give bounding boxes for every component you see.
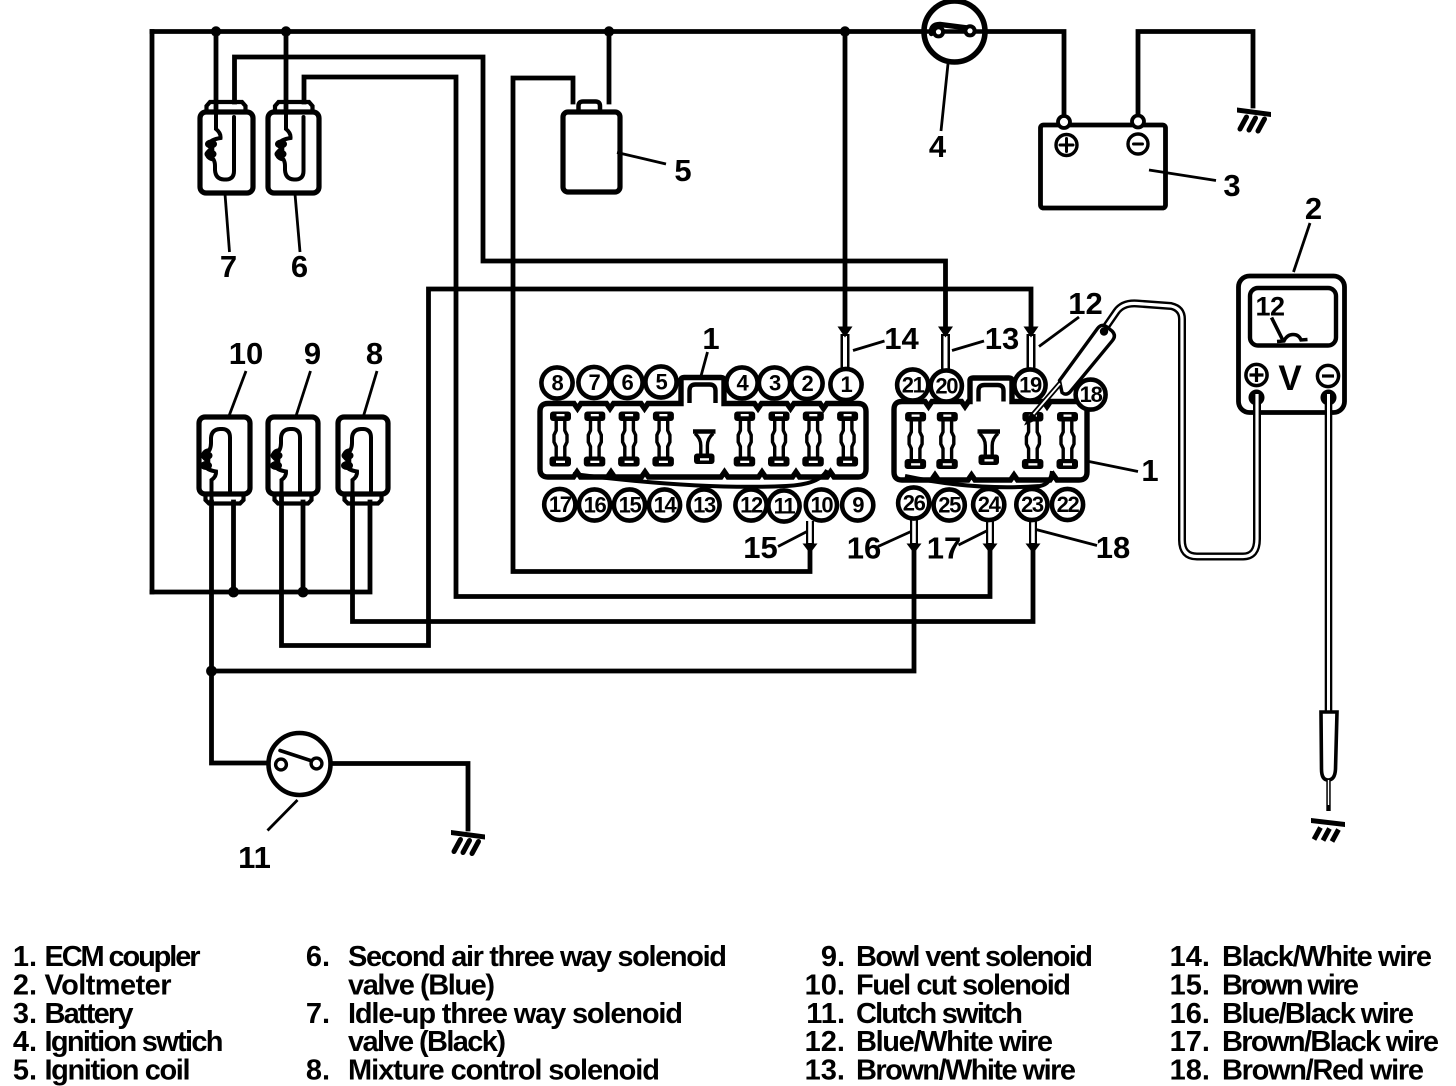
node 18 <box>1076 380 1106 410</box>
svg-text:Brown/Black wire: Brown/Black wire <box>1222 1026 1439 1058</box>
junction bus/solenoid7 <box>211 26 221 36</box>
ECM pin number circles left coupler top row <box>541 366 861 400</box>
wire 13 Brown/White: solenoid 7 to ECM pin 20 <box>235 57 946 330</box>
svg-text:8.: 8. <box>306 1055 330 1086</box>
svg-text:6.: 6. <box>306 941 330 973</box>
svg-text:Voltmeter: Voltmeter <box>45 969 172 1001</box>
leader label 16 <box>878 532 911 547</box>
leader label 5 <box>617 153 666 165</box>
node 25 <box>934 489 965 520</box>
pin slot 21 <box>905 412 927 469</box>
svg-text:4.: 4. <box>13 1026 37 1058</box>
svg-text:11: 11 <box>774 494 796 519</box>
svg-text:7: 7 <box>220 249 237 284</box>
wire ignition coil right pin to bus <box>607 32 612 103</box>
svg-text:9.: 9. <box>821 941 845 973</box>
ECM right latch tab inner <box>979 385 1004 402</box>
node 13 <box>688 489 719 520</box>
pin slot 20 <box>936 412 958 469</box>
leader label 11 <box>268 800 298 831</box>
ECM left under lip <box>573 470 827 487</box>
ground top right (battery negative) <box>1237 108 1271 132</box>
pin slot 3 <box>768 412 790 467</box>
key pin left coupler <box>693 432 716 465</box>
svg-text:12: 12 <box>740 493 763 518</box>
test probe at pin 19 <box>1024 325 1114 425</box>
svg-text:Black/White wire: Black/White wire <box>1222 941 1432 973</box>
node 1 <box>830 369 861 400</box>
pin slot 19 <box>1022 412 1044 469</box>
node 9 <box>842 489 873 520</box>
svg-text:ECM coupler: ECM coupler <box>45 941 201 973</box>
svg-text:10: 10 <box>229 336 263 371</box>
svg-text:Clutch switch: Clutch switch <box>856 998 1023 1030</box>
node 7 <box>578 367 609 398</box>
node 21 <box>897 369 928 400</box>
wire 17 Brown/Black: solenoid 6 to ECM pin 24 <box>304 77 990 597</box>
voltmeter minus terminal <box>1317 365 1338 386</box>
wire 13 terminal at pin 20 <box>941 334 950 369</box>
node 19 <box>1014 369 1045 400</box>
svg-text:15: 15 <box>743 530 777 565</box>
key pin right coupler <box>978 432 1001 466</box>
leader label 8 <box>364 371 378 416</box>
svg-text:22: 22 <box>1057 492 1080 517</box>
clutch switch 11 <box>269 733 331 795</box>
node 24 <box>973 489 1004 520</box>
svg-text:6: 6 <box>622 370 634 395</box>
svg-text:12: 12 <box>1068 286 1102 321</box>
junction wire16/clutch node <box>206 666 217 677</box>
junction bus/solenoid6 <box>281 26 291 36</box>
pin slot 6 <box>618 412 640 467</box>
svg-text:21: 21 <box>902 373 925 398</box>
ECM pin number circles right coupler bottom row <box>898 487 1083 520</box>
pin slot 2 <box>802 412 824 467</box>
svg-text:1.: 1. <box>13 941 37 973</box>
svg-text:3: 3 <box>769 371 781 396</box>
svg-text:Brown/Red wire: Brown/Red wire <box>1222 1055 1424 1086</box>
svg-text:Second air three way solenoid: Second air three way solenoid <box>348 941 727 973</box>
node 20 <box>931 370 962 401</box>
wire solenoid 10 left pin down to clutch switch <box>212 502 269 763</box>
svg-text:Fuel cut solenoid: Fuel cut solenoid <box>856 969 1071 1001</box>
svg-text:valve (Blue): valve (Blue) <box>348 969 495 1001</box>
svg-text:3: 3 <box>1223 168 1240 203</box>
leader label 13 <box>952 341 984 351</box>
pin slot 4 <box>734 412 756 467</box>
svg-text:11: 11 <box>238 840 271 875</box>
node 5 <box>645 366 676 397</box>
node 4 <box>726 367 757 398</box>
wire 12 terminal at pin 19 <box>1027 334 1036 368</box>
svg-text:2: 2 <box>1305 191 1322 226</box>
ignition coil 5 <box>563 102 620 193</box>
wire battery negative to ground <box>1138 32 1253 115</box>
ECM pin number circles left coupler bottom row <box>544 489 873 522</box>
node 23 <box>1016 489 1047 520</box>
wire 15 terminal at pin 10 <box>806 521 814 545</box>
svg-text:26: 26 <box>903 491 926 516</box>
leader label 12 <box>1039 317 1079 347</box>
svg-text:9: 9 <box>852 493 864 518</box>
svg-text:Brown wire: Brown wire <box>1222 969 1359 1001</box>
svg-text:18.: 18. <box>1170 1055 1210 1086</box>
solenoid valve 7 (idle-up three way solenoid valve) <box>200 102 253 193</box>
svg-text:Blue/White wire: Blue/White wire <box>856 1026 1053 1058</box>
svg-text:10: 10 <box>810 493 833 518</box>
wire 18 Brown/Red: solenoid 8 to ECM pin 23 <box>353 494 1034 622</box>
svg-text:23: 23 <box>1021 492 1044 517</box>
pin slot 18 <box>1057 412 1079 469</box>
svg-text:12.: 12. <box>805 1026 845 1058</box>
svg-text:Ignition swtich: Ignition swtich <box>45 1026 224 1058</box>
solenoid 10 (fuel cut solenoid) <box>199 417 250 504</box>
svg-text:11.: 11. <box>806 998 845 1030</box>
leader label 14 <box>853 341 885 351</box>
solenoid 9 (bowl vent solenoid) <box>268 417 318 504</box>
junction power line/solenoid9 right pin <box>298 587 309 598</box>
wire clutch switch to ground <box>331 764 469 830</box>
svg-text:18: 18 <box>1096 530 1130 565</box>
svg-text:24: 24 <box>978 492 1002 517</box>
wire 14 terminal at pin 1 <box>841 334 850 368</box>
leader label 3 <box>1149 170 1216 181</box>
svg-text:7.: 7. <box>306 998 330 1030</box>
ECM left latch tab inner <box>690 385 716 404</box>
svg-text:17.: 17. <box>1170 1026 1210 1058</box>
ECM left connector pin slots <box>550 412 859 467</box>
ground below negative probe <box>1311 818 1345 827</box>
svg-text:15.: 15. <box>1170 969 1210 1001</box>
node 6 <box>611 367 642 398</box>
junction bus/ignition coil <box>604 26 614 36</box>
voltmeter negative lead <box>1311 394 1345 842</box>
svg-text:V: V <box>1278 359 1302 398</box>
svg-text:Mixture control solenoid: Mixture control solenoid <box>348 1055 660 1086</box>
ECM coupler left connector body <box>540 378 866 487</box>
node 26 <box>898 487 929 518</box>
junction power line/solenoid10 right pin <box>228 587 239 598</box>
wire 17 terminal at pin 24 <box>986 521 994 546</box>
ECM coupler right connector body <box>894 378 1087 487</box>
leader label 18 <box>1036 530 1097 546</box>
svg-text:13: 13 <box>693 493 716 518</box>
wire 18 terminal at pin 23 <box>1029 521 1037 546</box>
svg-text:13: 13 <box>985 321 1019 356</box>
ECM right under lip <box>905 471 1052 487</box>
svg-text:5.: 5. <box>13 1055 37 1086</box>
pin slot 1 <box>837 412 859 467</box>
svg-text:17: 17 <box>549 492 572 517</box>
wire solenoid 7 left pin from bus <box>214 32 219 113</box>
pin slot 7 <box>584 412 606 467</box>
svg-text:5: 5 <box>656 370 668 395</box>
solenoid valve 6 (second air three way solenoid valve) <box>268 102 319 193</box>
wire 14 Black/White: bus to ECM pin 1 <box>843 32 848 331</box>
node 10 <box>806 489 837 520</box>
svg-text:18: 18 <box>1080 382 1103 407</box>
node 11 <box>768 490 799 521</box>
svg-text:1: 1 <box>1141 453 1158 488</box>
node 12 <box>735 489 766 520</box>
svg-text:8: 8 <box>552 371 564 396</box>
voltmeter plus terminal <box>1246 364 1267 385</box>
wire solenoid 6 left pin from bus <box>284 32 289 113</box>
pin slot 8 <box>550 412 572 467</box>
wire top bus right of ignition switch to battery + <box>982 32 1064 115</box>
leader label 17 <box>959 531 988 546</box>
wire solenoid 9 right pin to power line <box>301 502 306 592</box>
ECM pin number circles right coupler top row <box>897 369 1105 409</box>
node 17 <box>544 489 575 520</box>
svg-text:19: 19 <box>1019 373 1042 398</box>
wire 16 terminal at pin 26 <box>910 520 918 546</box>
svg-text:valve (Black): valve (Black) <box>348 1026 506 1058</box>
svg-text:25: 25 <box>938 493 961 518</box>
wire solenoid 10 right pin to power line <box>231 502 236 592</box>
svg-text:14: 14 <box>654 493 678 518</box>
svg-text:1: 1 <box>841 372 853 397</box>
svg-text:16.: 16. <box>1170 998 1210 1030</box>
node 16 <box>579 489 610 520</box>
svg-text:3.: 3. <box>13 998 37 1030</box>
svg-text:7: 7 <box>589 370 601 395</box>
node 2 <box>791 368 822 399</box>
svg-text:Battery: Battery <box>45 998 134 1030</box>
svg-text:5: 5 <box>674 153 691 188</box>
svg-text:Idle-up three way solenoid: Idle-up three way solenoid <box>348 998 683 1030</box>
node 15 <box>614 489 645 520</box>
junction bus/wire14 <box>840 26 850 36</box>
battery 3 <box>1041 116 1166 209</box>
node 3 <box>759 367 790 398</box>
wire top +12V bus left segment <box>152 29 926 34</box>
svg-text:15: 15 <box>619 493 642 518</box>
leader label 10 <box>229 371 246 416</box>
svg-text:17: 17 <box>927 531 961 566</box>
svg-text:9: 9 <box>304 336 321 371</box>
wire 16 Blue/Black: ECM pin 26 to clutch switch node <box>212 551 915 671</box>
leader label 1 right <box>1089 462 1138 472</box>
svg-text:Blue/Black wire: Blue/Black wire <box>1222 998 1414 1030</box>
svg-text:1: 1 <box>702 321 719 356</box>
terminal ends and arrows <box>803 327 1041 554</box>
leader label 9 <box>296 371 311 416</box>
LEGEND <box>13 941 1439 1086</box>
svg-text:16: 16 <box>584 493 607 518</box>
leader label 1 left <box>701 352 708 376</box>
solenoid 8 (mixture control solenoid) <box>338 417 388 504</box>
voltmeter needle <box>1272 318 1283 340</box>
ignition switch 4 <box>924 1 985 62</box>
leader label 7 <box>225 194 230 252</box>
svg-text:14: 14 <box>884 321 919 356</box>
svg-text:14.: 14. <box>1170 941 1210 973</box>
voltmeter positive lead cable <box>1103 303 1257 556</box>
voltmeter 2 body <box>1239 276 1345 413</box>
leader label 2 <box>1294 223 1311 272</box>
node 14 <box>649 489 680 520</box>
svg-text:8: 8 <box>366 336 383 371</box>
svg-text:12: 12 <box>1255 292 1284 322</box>
leader label 4 <box>941 59 949 131</box>
wire 15 Brown: ignition coil to ECM pin 10 <box>513 78 810 572</box>
svg-text:Ignition coil: Ignition coil <box>45 1055 191 1086</box>
svg-text:16: 16 <box>847 531 881 566</box>
ECM right connector pin slots <box>905 412 1078 469</box>
svg-text:20: 20 <box>935 374 958 399</box>
wire power line 1 to solenoids 10 9 8 <box>152 502 370 592</box>
node 22 <box>1052 489 1083 520</box>
svg-text:13.: 13. <box>805 1055 845 1086</box>
wire left frame from bus down to power line <box>150 32 155 593</box>
svg-text:10.: 10. <box>805 969 845 1001</box>
pin slot 5 <box>652 412 674 467</box>
leader label 15 <box>778 532 807 547</box>
svg-text:2.: 2. <box>13 969 37 1001</box>
negative probe body <box>1321 712 1337 780</box>
leader label 6 <box>295 194 300 252</box>
svg-text:4: 4 <box>929 129 947 164</box>
ground below clutch switch <box>451 830 485 854</box>
svg-text:Brown/White wire: Brown/White wire <box>856 1055 1076 1086</box>
svg-text:6: 6 <box>291 249 308 284</box>
wire 12 Blue/White: solenoid 9 to ECM pin 19 <box>282 289 1032 646</box>
svg-text:2: 2 <box>802 371 814 396</box>
svg-text:Bowl vent solenoid: Bowl vent solenoid <box>856 941 1093 973</box>
node 8 <box>541 367 572 398</box>
